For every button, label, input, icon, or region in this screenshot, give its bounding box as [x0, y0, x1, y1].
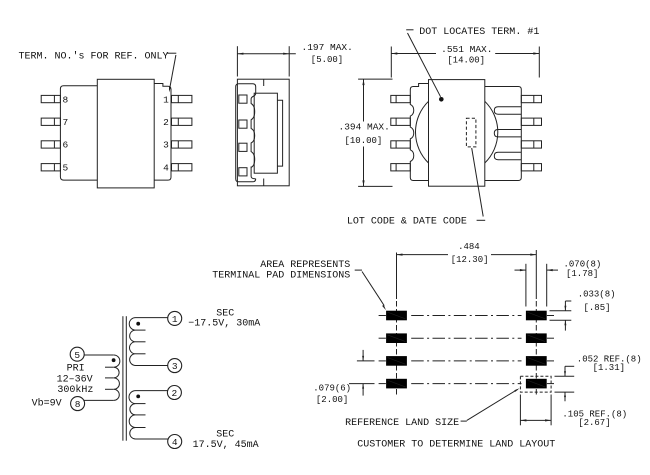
top view: right flange [485, 87, 522, 181]
svg-text:4: 4 [172, 437, 178, 448]
polarity dot: primary [112, 358, 116, 362]
svg-text:Vb=9V: Vb=9V [32, 398, 62, 410]
top view: winding arc right [485, 101, 498, 163]
side view: pin 5 [41, 164, 60, 171]
side view: pin 7 [41, 118, 60, 125]
svg-text:.070(8): .070(8) [564, 259, 602, 269]
wire: primary winding to pin 8 [84, 399, 114, 401]
end view: pin 7 cross-section [239, 120, 247, 128]
end view: core block [254, 93, 277, 173]
land pattern: row 4 centerline [379, 383, 386, 385]
land pattern: dimension .484 [12.30] [397, 254, 449, 256]
land pattern: pad L1 [386, 311, 407, 321]
svg-text:2: 2 [163, 117, 169, 128]
land pattern: pad L3 [386, 356, 407, 366]
side view: pin 3 [172, 141, 192, 148]
svg-text:[2.00]: [2.00] [316, 395, 348, 405]
svg-text:[1.31]: [1.31] [593, 363, 625, 373]
leader from land size label to dashed outline [461, 420, 467, 422]
side view: pin 2 [172, 118, 192, 125]
svg-text:.079(6): .079(6) [313, 384, 351, 394]
svg-text:[12.30]: [12.30] [451, 255, 489, 265]
svg-text:[1.78]: [1.78] [566, 269, 598, 279]
land pattern: pad R1 [526, 311, 547, 321]
svg-text:[.85]: [.85] [584, 303, 611, 313]
svg-text:1: 1 [172, 314, 178, 325]
wire: secondary 1 top to pin 1 [136, 317, 168, 319]
svg-text:6: 6 [63, 140, 69, 151]
end view: pin 5 cross-section [239, 168, 247, 176]
land pattern: dimension .070(8) [1.78] pad width [525, 264, 527, 307]
leader from code box to label [472, 148, 484, 217]
wire: pin 5 to primary winding [84, 354, 114, 356]
pin 4 terminal [168, 435, 182, 449]
svg-text:TERM. NO.'s FOR REF. ONLY: TERM. NO.'s FOR REF. ONLY [19, 50, 169, 62]
top view: terminal 1 locating dot [439, 97, 444, 102]
land pattern: pad L4 [386, 379, 407, 389]
top view: lot/date code box [466, 118, 476, 147]
land pattern: pad R3 [526, 356, 547, 366]
end view: core step [277, 100, 282, 166]
pin 5 terminal [70, 347, 84, 361]
land pattern: dimension .052 REF.(8) [1.31] [555, 375, 575, 377]
svg-text:.033(8): .033(8) [578, 289, 616, 299]
pin 1 terminal [168, 311, 182, 325]
svg-text:3: 3 [163, 140, 169, 151]
top view: center body [429, 80, 485, 187]
top view: right pin 3 [521, 141, 541, 148]
side view: pin 1 [172, 95, 192, 102]
svg-text:12–36V: 12–36V [57, 374, 93, 385]
leader from pad label to pad L1 [355, 269, 362, 271]
land pattern: dimension .105 REF.(8) [2.67] [519, 395, 521, 426]
svg-text:4: 4 [163, 163, 169, 174]
side view: left flange [60, 86, 97, 180]
end view: internal vertical line [263, 79, 265, 86]
side view: pin 8 [41, 95, 60, 102]
svg-text:3: 3 [172, 361, 178, 372]
land pattern: pad L2 [386, 333, 407, 343]
top view: left pin 5 [391, 164, 411, 171]
top view: left pin 7 [391, 118, 411, 125]
svg-text:300kHz: 300kHz [57, 384, 93, 396]
side view: transformer body T1 [97, 79, 154, 188]
svg-text:7: 7 [63, 117, 69, 128]
pin 3 terminal [168, 359, 182, 373]
end view: pin 6 cross-section [239, 143, 247, 151]
land pattern: row 1 centerline [379, 315, 386, 317]
top view: right pin 4 [521, 164, 541, 171]
transformer schematic: core [122, 316, 124, 441]
end view: bobbin strip with wavy pin edge [236, 84, 256, 182]
svg-text:5: 5 [63, 163, 69, 174]
wire: secondary 1 bottom to pin 3 [136, 365, 168, 367]
top view: dimension .551 MAX [14.00] [390, 47, 392, 78]
svg-text:5: 5 [74, 350, 80, 361]
top view: right pin 2 [521, 118, 541, 125]
svg-text:2: 2 [172, 388, 178, 399]
pin 8 terminal [71, 397, 85, 411]
side view: pin 4 [172, 164, 192, 171]
leader to pin 1 [166, 52, 176, 54]
pin 2 terminal [167, 386, 181, 400]
svg-text:PRI: PRI [67, 364, 85, 375]
wire: secondary 2 top to pin 2 [136, 390, 168, 392]
svg-text:CUSTOMER TO DETERMINE LAND LAY: CUSTOMER TO DETERMINE LAND LAYOUT [357, 440, 555, 451]
schematic: primary winding (pins 5-8) [114, 355, 120, 400]
land pattern: row 3 centerline [379, 360, 386, 362]
land pattern: column centerline right [535, 250, 537, 299]
svg-text:8: 8 [63, 94, 69, 105]
top view: right flange grooves [494, 107, 521, 114]
wire: secondary 2 bottom to pin 4 [136, 438, 169, 440]
land pattern: column centerline left [396, 253, 398, 300]
top view: left pin 6 [391, 141, 411, 148]
svg-text:DOT LOCATES TERM. #1: DOT LOCATES TERM. #1 [419, 27, 539, 38]
svg-text:.197 MAX.: .197 MAX. [302, 42, 353, 53]
svg-text:[10.00]: [10.00] [345, 136, 383, 146]
svg-text:TERMINAL PAD DIMENSIONS: TERMINAL PAD DIMENSIONS [212, 270, 350, 281]
polarity dot: secondary 2 [136, 395, 140, 399]
svg-text:8: 8 [75, 399, 81, 410]
land pattern: pad R4 [526, 379, 547, 389]
side view: right flange with pin-1 step [154, 84, 171, 181]
svg-text:[5.00]: [5.00] [311, 55, 343, 65]
svg-text:AREA REPRESENTS: AREA REPRESENTS [260, 260, 350, 271]
svg-text:1: 1 [163, 94, 169, 105]
top view: left pin 8 [391, 95, 411, 102]
polarity dot: secondary 1 [136, 322, 140, 326]
svg-text:REFERENCE LAND SIZE: REFERENCE LAND SIZE [345, 418, 459, 429]
svg-text:LOT CODE & DATE CODE: LOT CODE & DATE CODE [347, 216, 467, 227]
schematic: secondary winding 1 (pins 1-3) [129, 318, 135, 366]
top view: right pin 1 [521, 95, 541, 102]
svg-text:[14.00]: [14.00] [447, 55, 485, 65]
top view: left flange with pin-1 step [410, 84, 428, 181]
land pattern: reference land outline (dashed) [520, 376, 551, 392]
svg-text:.551 MAX.: .551 MAX. [441, 44, 492, 55]
svg-text:17.5V, 45mA: 17.5V, 45mA [193, 440, 259, 451]
top view: dimension .394 MAX [10.00] [358, 78, 392, 80]
schematic: secondary winding 2 (pins 2-4) [129, 391, 135, 439]
svg-text:.394 MAX.: .394 MAX. [339, 122, 390, 133]
land pattern: dimension .079(6) [2.00] row pitch [357, 360, 375, 362]
land pattern: row 2 centerline [379, 337, 386, 339]
land pattern: pad R2 [526, 333, 547, 343]
end view: package outline [237, 79, 289, 186]
svg-text:[2.67]: [2.67] [578, 418, 610, 428]
side view: pin 6 [41, 141, 60, 148]
top view: winding arc left [415, 101, 428, 163]
land pattern: dimension .033(8) [.85] pad height [550, 310, 572, 312]
leader from DOT label to dot [406, 29, 413, 31]
end view: pin 8 cross-section [239, 95, 247, 103]
svg-text:.484: .484 [458, 242, 480, 252]
svg-text:−17.5V, 30mA: −17.5V, 30mA [188, 319, 260, 330]
end view: dimension .197 MAX [5.00] [236, 46, 238, 76]
